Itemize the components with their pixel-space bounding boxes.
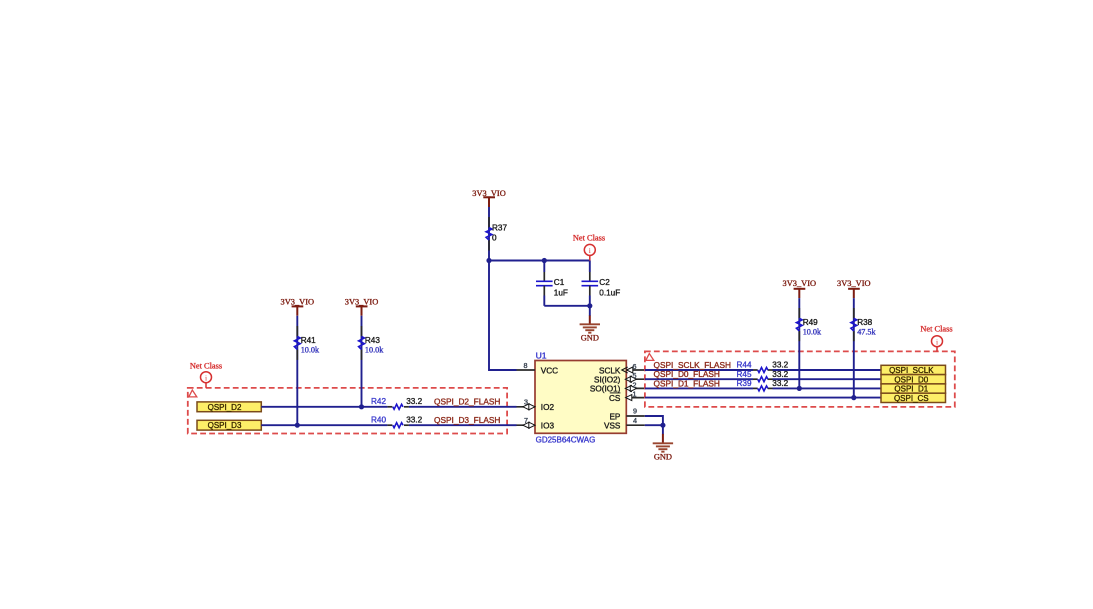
svg-text:SO(IO1): SO(IO1)	[590, 385, 621, 394]
blanket region (left, QSPI_D2/D3 net class)	[188, 388, 507, 434]
capacitor C1 1uF	[536, 261, 568, 306]
ground under C2	[580, 316, 600, 343]
pin 6 SCLK	[599, 362, 645, 375]
svg-text:QSPI_D3: QSPI_D3	[208, 421, 242, 430]
svg-text:33.2: 33.2	[772, 361, 788, 370]
IC U1 GD25B64CWAG	[535, 350, 626, 444]
resistor R45 33.2	[737, 370, 789, 382]
port QSPI_D2	[197, 402, 261, 412]
svg-text:R41: R41	[301, 336, 316, 345]
svg-text:R42: R42	[371, 397, 386, 406]
svg-text:10.0k: 10.0k	[365, 345, 384, 354]
svg-text:6: 6	[633, 362, 637, 371]
svg-text:33.2: 33.2	[406, 415, 422, 424]
pin 5 SI(IO2)	[594, 371, 645, 384]
svg-text:U1: U1	[536, 350, 547, 360]
port QSPI_D3	[197, 420, 261, 430]
resistor R44 33.2	[737, 361, 789, 373]
pin 7 IO3	[517, 416, 555, 431]
power 3V3_VIO (above R49)	[783, 279, 817, 298]
power 3V3_VIO (above R38)	[837, 279, 871, 298]
resistor R40 33.2	[371, 415, 423, 427]
svg-text:R44: R44	[737, 361, 752, 370]
svg-text:R39: R39	[737, 379, 752, 388]
svg-text:10.0k: 10.0k	[803, 327, 822, 336]
svg-text:3V3_VIO: 3V3_VIO	[281, 297, 315, 306]
port QSPI_D1	[881, 384, 946, 394]
junction R38 on CS row	[851, 395, 856, 400]
svg-text:C2: C2	[599, 278, 610, 287]
blanket region (right, QSPI flash net class)	[645, 351, 955, 407]
svg-text:R37: R37	[492, 224, 507, 233]
svg-text:VSS: VSS	[604, 422, 621, 431]
svg-text:C1: C1	[554, 278, 565, 287]
wire from 3V3_VIO to decoupling junction	[488, 207, 490, 261]
power 3V3_VIO (top, above R37)	[472, 189, 506, 207]
svg-text:33.2: 33.2	[772, 370, 788, 379]
svg-text:QSPI_D2: QSPI_D2	[208, 403, 242, 412]
svg-text:QSPI_SCLK: QSPI_SCLK	[889, 366, 934, 375]
svg-text:5: 5	[633, 371, 637, 380]
pin 4 VSS	[604, 416, 645, 431]
wire QSPI_D3 row	[261, 424, 387, 426]
pin 3 IO2	[517, 397, 555, 412]
wire down to ground	[662, 425, 664, 434]
svg-text:0: 0	[492, 233, 497, 242]
svg-text:R43: R43	[365, 336, 380, 345]
wire QSPI_CS row	[645, 397, 881, 399]
svg-text:3V3_VIO: 3V3_VIO	[345, 297, 379, 306]
port QSPI_D0	[881, 375, 946, 385]
svg-text:R45: R45	[737, 370, 752, 379]
svg-text:QSPI_D1: QSPI_D1	[894, 385, 928, 394]
resistor R42 33.2	[371, 397, 423, 409]
wire QSPI_SCLK row	[645, 369, 753, 371]
svg-text:3V3_VIO: 3V3_VIO	[783, 279, 817, 288]
svg-text:R49: R49	[803, 318, 818, 327]
junction R43 on D2 row	[359, 404, 364, 409]
svg-text:Net Class: Net Class	[920, 325, 952, 334]
junction at VSS/EP	[660, 423, 665, 428]
junction R41 on D3 row	[295, 423, 300, 428]
svg-text:2: 2	[633, 380, 637, 389]
wire VSS to GND node	[645, 424, 663, 426]
wire EP to GND node	[645, 416, 663, 425]
junction at C1 top	[542, 258, 547, 263]
svg-text:QSPI_D1_FLASH: QSPI_D1_FLASH	[654, 378, 720, 388]
svg-text:1: 1	[633, 390, 637, 399]
pin 2 SO(IO1)	[590, 380, 645, 393]
pin 8 VCC	[517, 361, 559, 375]
resistor R38 47.5k	[851, 308, 877, 341]
wire QSPI_D0 row	[645, 378, 753, 380]
svg-text:QSPI_D0: QSPI_D0	[894, 375, 928, 384]
svg-text:SI(IO2): SI(IO2)	[594, 376, 621, 385]
svg-text:i: i	[589, 246, 591, 255]
svg-text:47.5k: 47.5k	[857, 327, 876, 336]
power 3V3_VIO (above R41)	[281, 297, 315, 315]
resistor R37 0	[486, 217, 507, 251]
svg-text:4: 4	[633, 416, 637, 425]
svg-text:QSPI_D2_FLASH: QSPI_D2_FLASH	[434, 397, 500, 407]
wire QSPI_D2 row	[261, 406, 387, 408]
wire VCC rail horizontal	[489, 260, 590, 262]
svg-text:IO3: IO3	[541, 422, 555, 431]
svg-text:10.0k: 10.0k	[301, 345, 320, 354]
wire C1-C2 bottom	[544, 305, 590, 307]
wire VCC rail to pin 8	[489, 261, 517, 371]
svg-text:i: i	[205, 374, 207, 383]
svg-text:IO2: IO2	[541, 403, 555, 412]
svg-text:CS: CS	[609, 394, 621, 403]
port QSPI_CS	[881, 393, 946, 403]
wire R49 vertical	[798, 298, 800, 388]
svg-text:EP: EP	[609, 412, 620, 421]
wire R43 vertical	[361, 316, 363, 407]
svg-text:33.2: 33.2	[772, 379, 788, 388]
svg-text:3V3_VIO: 3V3_VIO	[837, 279, 871, 288]
svg-text:0.1uF: 0.1uF	[599, 289, 620, 298]
svg-text:33.2: 33.2	[406, 397, 422, 406]
Net Class directive (right)	[920, 325, 952, 352]
pin 1 CS (active low)	[609, 390, 645, 403]
svg-text:8: 8	[524, 361, 528, 370]
svg-text:QSPI_D3_FLASH: QSPI_D3_FLASH	[434, 415, 500, 425]
svg-text:VCC: VCC	[541, 366, 558, 375]
wire R41 vertical	[296, 316, 298, 426]
wire R38 vertical	[853, 298, 855, 398]
junction at C2 bottom	[587, 303, 592, 308]
svg-text:R38: R38	[857, 318, 872, 327]
svg-text:Net Class: Net Class	[573, 233, 605, 242]
svg-text:9: 9	[633, 407, 637, 416]
svg-text:QSPI_CS: QSPI_CS	[894, 394, 929, 403]
resistor R41 10.0k	[294, 326, 320, 360]
svg-text:Net Class: Net Class	[190, 362, 222, 371]
svg-text:GND: GND	[654, 452, 672, 461]
svg-text:i: i	[936, 338, 938, 347]
Net Class directive (left)	[190, 362, 222, 388]
svg-text:SCLK: SCLK	[599, 366, 621, 375]
node VCC rail: junction at R37 bottom	[486, 258, 491, 263]
svg-text:3: 3	[524, 397, 528, 406]
resistor R49 10.0k	[796, 308, 822, 341]
resistor R39 33.2	[737, 379, 789, 391]
svg-text:GD25B64CWAG: GD25B64CWAG	[536, 436, 596, 445]
svg-text:GND: GND	[581, 333, 599, 342]
capacitor C2 0.1uF	[582, 261, 621, 306]
wire to GND	[589, 306, 591, 316]
ground under U1	[653, 434, 673, 462]
pin 9 EP	[609, 407, 644, 422]
svg-text:R40: R40	[371, 415, 386, 424]
power 3V3_VIO (above R43)	[345, 297, 379, 315]
svg-text:1uF: 1uF	[554, 289, 568, 298]
resistor R43 10.0k	[359, 326, 385, 360]
port QSPI_SCLK	[881, 365, 946, 375]
wire QSPI_D1 row	[645, 387, 753, 389]
junction R49 on D1 row	[797, 386, 802, 391]
blanket collapse triangle (left)	[189, 390, 197, 397]
Net Class directive (top, on VCC rail)	[573, 233, 605, 260]
blanket collapse triangle (right)	[646, 354, 654, 361]
svg-text:7: 7	[524, 416, 528, 425]
